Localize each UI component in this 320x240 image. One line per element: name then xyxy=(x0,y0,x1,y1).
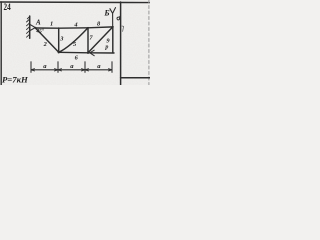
dimension tick 4 xyxy=(111,62,113,73)
node B2 xyxy=(87,52,89,54)
frame top border xyxy=(0,1,150,4)
member 2 diagonal A to B1 xyxy=(35,28,58,52)
frame far right border xyxy=(148,0,150,85)
svg-text:p: p xyxy=(104,44,108,50)
member 9 diagonal B2 to B xyxy=(88,27,113,53)
node T1 xyxy=(58,27,60,29)
stray mark right of divider xyxy=(122,26,124,31)
svg-text:A: A xyxy=(35,18,41,26)
pin support triangle at A xyxy=(30,24,36,30)
member 6 bottom chord B1 to B2 xyxy=(59,51,88,54)
svg-text:45°: 45° xyxy=(35,28,44,35)
frame right-cell bottom border xyxy=(121,77,150,79)
member 8 top chord T2 to B xyxy=(88,26,113,29)
dimension tick 2 xyxy=(57,62,59,73)
wall hatching xyxy=(27,17,30,38)
svg-text:24: 24 xyxy=(4,1,12,12)
member 3 vertical T1 to B1 xyxy=(58,28,60,52)
dimension tick 3 xyxy=(84,62,86,73)
bottom chord B2 to B3 xyxy=(88,52,114,54)
node T2 xyxy=(87,27,89,29)
wall line at A xyxy=(29,16,31,38)
member 10 vertical B to B3 xyxy=(112,27,114,53)
dimension line xyxy=(31,69,112,71)
svg-text:1: 1 xyxy=(50,21,53,28)
node A xyxy=(34,27,36,29)
member 1 top chord A to T1 xyxy=(35,27,58,29)
svg-text:4: 4 xyxy=(73,21,77,28)
member 5 diagonal B1 to T2 xyxy=(59,28,88,53)
scan grain xyxy=(0,0,150,85)
member 7 vertical T2 to B2 xyxy=(87,28,89,53)
force label sigma glyph at B xyxy=(117,16,120,20)
node B xyxy=(112,26,114,28)
svg-text:Р=7кН: Р=7кН xyxy=(2,75,28,85)
dimension tick at wall xyxy=(30,62,32,73)
svg-text:Б: Б xyxy=(103,8,109,17)
force arrow at B pointing up xyxy=(110,8,116,27)
member 4 top chord T1 to T2 xyxy=(59,27,88,29)
dimension arrowheads xyxy=(31,69,112,71)
force P arrowhead pointing left at B2 xyxy=(90,50,94,56)
frame divider between cells xyxy=(120,2,122,85)
frame left border xyxy=(0,2,2,85)
node B1 xyxy=(58,51,60,53)
